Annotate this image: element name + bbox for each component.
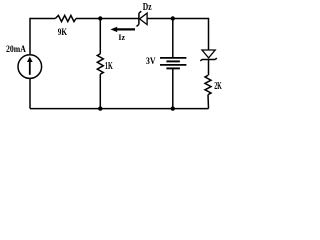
wire zener to node B <box>147 18 173 20</box>
svg-text:Dz: Dz <box>143 2 152 13</box>
wire node A to zener <box>100 18 139 20</box>
svg-text:1K: 1K <box>105 61 113 72</box>
wire node B down to battery <box>172 19 174 58</box>
node A junction dot <box>98 16 102 20</box>
current arrow Iz <box>110 27 135 42</box>
current source I1 20mA <box>6 44 42 79</box>
resistor R3 2K <box>205 75 222 94</box>
resistor R1 9K <box>55 15 76 38</box>
battery B1 3V <box>146 56 187 69</box>
wire diode to 2K <box>208 60 210 76</box>
node B junction dot <box>171 16 175 20</box>
wire current source to bottom-left corner <box>29 78 31 108</box>
diode D1 <box>200 50 216 61</box>
svg-text:9K: 9K <box>58 27 68 38</box>
wire battery down to node D <box>172 68 174 108</box>
svg-text:Iz: Iz <box>118 32 125 42</box>
svg-text:20mA: 20mA <box>6 44 26 55</box>
bottom wire <box>30 108 209 110</box>
node C junction dot <box>98 106 102 110</box>
zener diode Dz <box>137 2 152 26</box>
wire node A down to 1K <box>99 19 101 54</box>
node D junction dot <box>171 106 175 110</box>
wire 1K down to node C <box>99 74 101 108</box>
svg-text:3V: 3V <box>146 56 156 67</box>
wire top-left corner down to current source <box>29 18 31 55</box>
wire node B to top-right corner and down to diode <box>173 19 209 51</box>
resistor R2 1K <box>97 54 113 74</box>
wire top-left horizontal <box>30 18 55 20</box>
wire 2K down to bottom-right corner <box>207 95 210 109</box>
wire 9K to node A <box>76 18 100 20</box>
svg-text:2K: 2K <box>214 81 222 92</box>
